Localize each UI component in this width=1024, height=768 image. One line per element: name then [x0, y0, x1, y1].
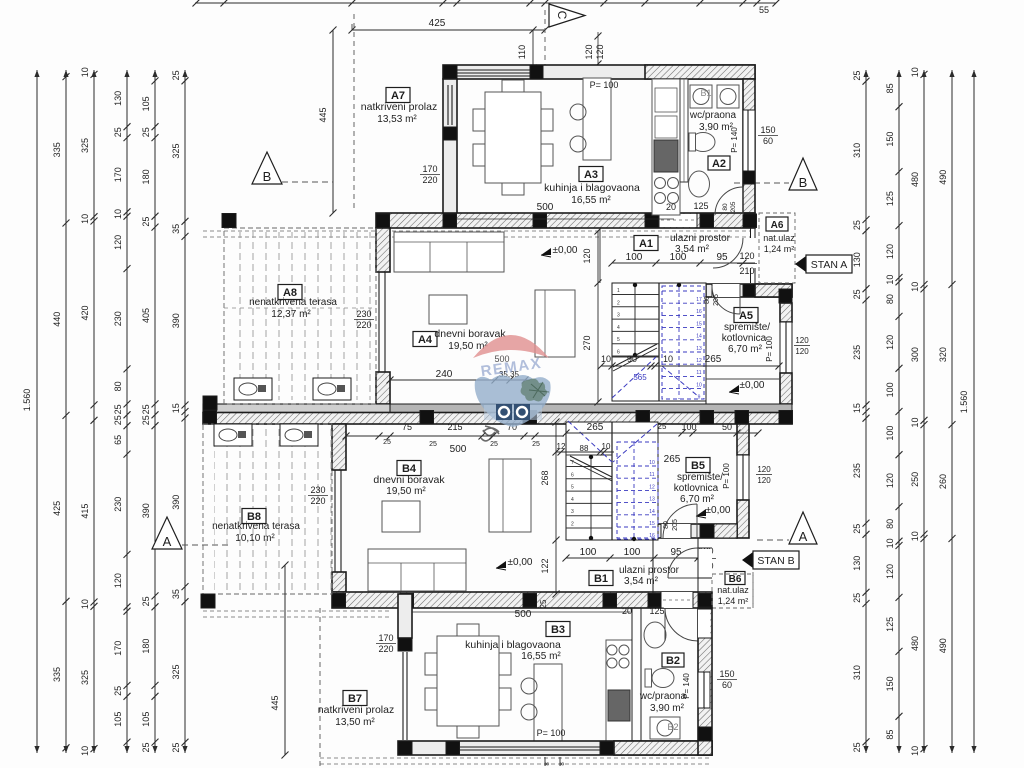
svg-text:120: 120 [595, 44, 605, 59]
svg-text:15: 15 [852, 403, 862, 413]
svg-text:125: 125 [885, 617, 895, 632]
svg-text:C: C [555, 11, 569, 20]
svg-text:480: 480 [910, 636, 920, 651]
svg-text:A1: A1 [639, 238, 653, 250]
svg-text:325: 325 [80, 138, 90, 153]
svg-text:120: 120 [113, 573, 123, 588]
svg-text:25: 25 [141, 127, 151, 137]
svg-text:120: 120 [739, 251, 754, 261]
svg-text:10: 10 [601, 354, 611, 364]
svg-text:6: 6 [571, 472, 574, 478]
svg-text:390: 390 [171, 313, 181, 328]
svg-text:260: 260 [938, 474, 948, 489]
svg-text:320: 320 [938, 347, 948, 362]
svg-text:25: 25 [852, 71, 862, 81]
svg-text:220: 220 [378, 644, 393, 654]
svg-text:spremište/: spremište/ [677, 472, 723, 483]
svg-text:25: 25 [383, 439, 391, 446]
svg-text:nenatkrivena terasa: nenatkrivena terasa [249, 297, 337, 308]
svg-text:11: 11 [696, 370, 701, 376]
svg-text:2: 2 [571, 522, 574, 528]
svg-text:B: B [799, 175, 808, 190]
svg-text:nenatkrivena terasa: nenatkrivena terasa [212, 521, 300, 532]
svg-text:120: 120 [795, 336, 809, 345]
svg-text:spremište/: spremište/ [724, 322, 770, 333]
svg-text:1: 1 [617, 288, 620, 294]
svg-text:425: 425 [52, 501, 62, 516]
svg-text:16: 16 [696, 309, 702, 315]
svg-text:natkriveni prolaz: natkriveni prolaz [318, 704, 394, 716]
svg-text:100: 100 [885, 382, 895, 397]
svg-text:120: 120 [885, 564, 895, 579]
svg-text:268: 268 [540, 470, 550, 485]
svg-text:85: 85 [885, 730, 895, 740]
svg-text:B: B [263, 169, 272, 184]
svg-text:16: 16 [649, 533, 655, 539]
svg-text:10: 10 [910, 531, 920, 541]
svg-text:25: 25 [658, 422, 667, 431]
svg-text:1,24 m²: 1,24 m² [718, 596, 749, 606]
svg-text:4: 4 [617, 325, 620, 331]
svg-text:10,10 m²: 10,10 m² [235, 533, 275, 544]
svg-text:A: A [799, 529, 808, 544]
svg-text:80: 80 [663, 521, 670, 529]
svg-text:205: 205 [672, 519, 679, 531]
svg-text:25: 25 [141, 217, 151, 227]
svg-text:25: 25 [852, 524, 862, 534]
svg-text:130: 130 [113, 91, 123, 106]
svg-text:95: 95 [670, 547, 682, 558]
svg-text:A6: A6 [771, 220, 784, 231]
svg-text:A4: A4 [418, 334, 433, 346]
svg-text:100: 100 [681, 422, 696, 432]
svg-text:390: 390 [171, 495, 181, 510]
svg-text:170: 170 [113, 641, 123, 656]
svg-text:235: 235 [852, 345, 862, 360]
svg-text:kotlovnica: kotlovnica [722, 333, 767, 344]
svg-text:12,37 m²: 12,37 m² [271, 309, 311, 320]
svg-text:1.560: 1.560 [22, 389, 32, 412]
svg-text:85: 85 [885, 83, 895, 93]
svg-text:dnevni boravak: dnevni boravak [373, 474, 445, 486]
svg-text:A5: A5 [739, 310, 753, 322]
svg-text:420: 420 [80, 305, 90, 320]
svg-text:10: 10 [80, 599, 90, 609]
svg-text:105: 105 [141, 712, 151, 727]
svg-text:105: 105 [113, 712, 123, 727]
svg-text:10: 10 [910, 417, 920, 427]
svg-text:150: 150 [885, 132, 895, 147]
svg-text:10: 10 [602, 442, 611, 451]
svg-text:12: 12 [696, 358, 702, 364]
svg-text:5: 5 [571, 485, 574, 491]
svg-text:125: 125 [693, 201, 708, 211]
svg-text:dnevni boravak: dnevni boravak [434, 328, 506, 340]
svg-text:B6: B6 [729, 574, 742, 585]
svg-text:13,53 m²: 13,53 m² [377, 114, 417, 125]
svg-text:3,90 m²: 3,90 m² [650, 703, 685, 714]
svg-text:25: 25 [532, 441, 540, 448]
svg-text:STAN B: STAN B [757, 555, 794, 567]
svg-text:±0,00: ±0,00 [508, 557, 533, 568]
svg-text:220: 220 [310, 496, 325, 506]
svg-text:100: 100 [626, 252, 643, 263]
svg-text:13,50 m²: 13,50 m² [335, 717, 375, 728]
svg-text:14: 14 [649, 509, 655, 515]
svg-text:25: 25 [113, 686, 123, 696]
svg-text:50: 50 [722, 422, 732, 432]
svg-text:80: 80 [113, 381, 123, 391]
svg-text:490: 490 [938, 638, 948, 653]
svg-text:150: 150 [885, 676, 895, 691]
svg-text:325: 325 [171, 664, 181, 679]
svg-text:80: 80 [885, 294, 895, 304]
svg-text:120: 120 [582, 248, 592, 263]
svg-text:25: 25 [852, 742, 862, 752]
svg-text:10: 10 [80, 746, 90, 756]
svg-text:122: 122 [540, 558, 550, 573]
svg-text:P= 140: P= 140 [682, 673, 691, 699]
svg-text:90: 90 [627, 354, 637, 364]
svg-text:±0,00: ±0,00 [706, 505, 731, 516]
svg-text:170: 170 [113, 167, 123, 182]
svg-text:kotlovnica: kotlovnica [674, 483, 719, 494]
svg-text:80: 80 [885, 519, 895, 529]
svg-text:150: 150 [760, 125, 775, 135]
svg-text:415: 415 [80, 504, 90, 519]
svg-text:15: 15 [171, 403, 181, 413]
svg-text:130: 130 [852, 252, 862, 267]
svg-text:25: 25 [141, 415, 151, 425]
svg-text:13: 13 [696, 346, 702, 352]
svg-text:220: 220 [356, 320, 371, 330]
svg-text:230: 230 [310, 485, 325, 495]
svg-text:205: 205 [713, 294, 720, 306]
svg-text:120: 120 [757, 465, 771, 474]
svg-text:80: 80 [722, 203, 729, 211]
svg-text:P= 100: P= 100 [590, 80, 619, 90]
svg-text:250: 250 [910, 472, 920, 487]
svg-text:215: 215 [447, 422, 462, 432]
svg-text:220: 220 [422, 175, 437, 185]
svg-text:wc/praona: wc/praona [689, 110, 737, 121]
svg-text:490: 490 [938, 170, 948, 185]
svg-text:natkriveni prolaz: natkriveni prolaz [361, 101, 437, 113]
svg-text:6,70 m²: 6,70 m² [728, 344, 763, 355]
svg-text:35: 35 [171, 224, 181, 234]
svg-text:180: 180 [141, 639, 151, 654]
svg-text:75: 75 [402, 422, 412, 432]
svg-text:95: 95 [716, 252, 728, 263]
svg-text:3: 3 [617, 313, 620, 319]
svg-text:25: 25 [113, 127, 123, 137]
svg-text:445: 445 [270, 695, 280, 710]
svg-text:335: 335 [52, 142, 62, 157]
svg-text:6,70 m²: 6,70 m² [680, 494, 715, 505]
svg-text:25: 25 [113, 404, 123, 414]
svg-text:500: 500 [515, 609, 532, 620]
svg-text:10: 10 [663, 354, 673, 364]
svg-text:25: 25 [141, 743, 151, 753]
svg-text:25: 25 [539, 599, 548, 608]
svg-text:110: 110 [517, 45, 527, 59]
svg-text:65: 65 [113, 435, 123, 445]
svg-text:100: 100 [580, 547, 597, 558]
svg-text:300: 300 [910, 347, 920, 362]
svg-text:500: 500 [450, 444, 467, 455]
svg-text:25: 25 [171, 743, 181, 753]
svg-text:500: 500 [537, 202, 554, 213]
svg-text:235: 235 [852, 463, 862, 478]
svg-text:3: 3 [571, 509, 574, 515]
svg-text:440: 440 [52, 312, 62, 327]
svg-text:1.560: 1.560 [959, 391, 969, 414]
svg-text:P= 100: P= 100 [765, 336, 774, 362]
svg-text:wc/praona: wc/praona [639, 691, 687, 702]
svg-text:16,55 m²: 16,55 m² [521, 651, 561, 662]
svg-text:P= 100: P= 100 [722, 463, 731, 489]
svg-text:14: 14 [696, 334, 702, 340]
svg-text:230: 230 [356, 309, 371, 319]
svg-text:425: 425 [429, 18, 446, 29]
svg-text:17: 17 [696, 297, 702, 303]
svg-text:445: 445 [318, 107, 328, 122]
svg-text:10: 10 [696, 382, 702, 388]
svg-text:55: 55 [759, 5, 769, 15]
svg-text:310: 310 [852, 665, 862, 680]
svg-text:ulazni prostor: ulazni prostor [670, 233, 731, 244]
svg-text:405: 405 [141, 308, 151, 323]
svg-text:230: 230 [113, 311, 123, 326]
svg-text:12: 12 [649, 484, 655, 490]
svg-text:6: 6 [617, 350, 620, 356]
svg-text:B5: B5 [691, 460, 705, 472]
svg-text:±0,00: ±0,00 [553, 245, 578, 256]
svg-text:3,54 m²: 3,54 m² [675, 244, 710, 255]
svg-text:3,90 m²: 3,90 m² [699, 122, 734, 133]
svg-text:B2: B2 [666, 655, 680, 667]
svg-text:5: 5 [617, 337, 620, 343]
svg-text:100: 100 [885, 426, 895, 441]
svg-text:25: 25 [852, 289, 862, 299]
svg-text:20: 20 [622, 606, 632, 616]
svg-text:P= 140: P= 140 [730, 127, 739, 153]
svg-text:60: 60 [763, 136, 773, 146]
svg-text:120: 120 [885, 335, 895, 350]
svg-text:15: 15 [649, 521, 655, 527]
svg-text:kuhinja i blagovaona: kuhinja i blagovaona [465, 639, 561, 651]
svg-text:120: 120 [795, 347, 809, 356]
svg-text:A3: A3 [584, 169, 598, 181]
svg-text:120: 120 [113, 235, 123, 250]
svg-text:3,54 m²: 3,54 m² [624, 576, 659, 587]
svg-text:325: 325 [80, 670, 90, 685]
svg-text:nat.ulaz: nat.ulaz [763, 233, 795, 243]
svg-text:105: 105 [141, 96, 151, 111]
svg-text:9: 9 [698, 395, 701, 401]
svg-text:kuhinja i blagovaona: kuhinja i blagovaona [544, 182, 640, 194]
svg-text:265: 265 [664, 454, 681, 465]
svg-text:130: 130 [852, 556, 862, 571]
svg-text:25: 25 [141, 404, 151, 414]
svg-text:25: 25 [113, 415, 123, 425]
svg-text:11: 11 [649, 472, 654, 478]
svg-text:25: 25 [852, 593, 862, 603]
svg-text:60: 60 [722, 680, 732, 690]
svg-text:120: 120 [885, 473, 895, 488]
svg-text:A: A [163, 534, 172, 549]
svg-text:16,55 m²: 16,55 m² [571, 195, 611, 206]
svg-text:B2: B2 [667, 722, 678, 732]
svg-text:170: 170 [378, 633, 393, 643]
svg-text:25: 25 [429, 441, 437, 448]
svg-text:35: 35 [171, 589, 181, 599]
svg-text:120: 120 [885, 244, 895, 259]
svg-text:STAN A: STAN A [811, 259, 848, 271]
svg-text:210: 210 [739, 266, 754, 276]
svg-text:25: 25 [171, 70, 181, 80]
svg-text:205: 205 [730, 201, 737, 212]
svg-text:10: 10 [80, 214, 90, 224]
svg-text:265: 265 [705, 354, 722, 365]
svg-text:4: 4 [571, 497, 574, 503]
svg-text:100: 100 [624, 547, 641, 558]
svg-text:120: 120 [757, 476, 771, 485]
svg-text:13: 13 [649, 497, 655, 503]
svg-text:B1: B1 [700, 88, 711, 98]
svg-text:10: 10 [910, 67, 920, 77]
svg-text:P= 100: P= 100 [537, 728, 566, 738]
svg-text:565: 565 [633, 373, 647, 382]
svg-text:10: 10 [885, 538, 895, 548]
svg-text:A2: A2 [712, 158, 726, 170]
svg-text:480: 480 [910, 172, 920, 187]
svg-text:310: 310 [852, 143, 862, 158]
svg-text:±0,00: ±0,00 [740, 380, 765, 391]
svg-text:240: 240 [436, 369, 453, 380]
svg-text:335: 335 [52, 667, 62, 682]
svg-text:10: 10 [113, 209, 123, 219]
svg-text:nat.ulaz: nat.ulaz [717, 585, 749, 595]
svg-text:25: 25 [852, 220, 862, 230]
svg-text:10: 10 [649, 460, 655, 466]
svg-text:390: 390 [141, 503, 151, 518]
svg-text:10: 10 [910, 746, 920, 756]
svg-text:10: 10 [885, 275, 895, 285]
svg-text:15: 15 [696, 321, 702, 327]
svg-text:270: 270 [582, 335, 592, 350]
svg-text:20: 20 [666, 202, 676, 212]
svg-text:180: 180 [141, 169, 151, 184]
svg-text:B1: B1 [594, 573, 608, 585]
svg-text:2: 2 [617, 300, 620, 306]
svg-text:25: 25 [490, 441, 498, 448]
svg-text:10: 10 [910, 282, 920, 292]
svg-text:B3: B3 [551, 624, 565, 636]
svg-text:12: 12 [557, 442, 566, 451]
svg-text:19,50 m²: 19,50 m² [386, 486, 426, 497]
svg-text:230: 230 [113, 497, 123, 512]
svg-text:170: 170 [422, 164, 437, 174]
svg-text:10: 10 [80, 67, 90, 77]
svg-text:125: 125 [885, 191, 895, 206]
svg-text:265: 265 [587, 422, 604, 433]
svg-text:80: 80 [704, 296, 711, 304]
svg-text:25: 25 [141, 596, 151, 606]
svg-text:325: 325 [171, 144, 181, 159]
svg-text:125: 125 [649, 606, 664, 616]
svg-text:120: 120 [584, 44, 594, 59]
svg-text:1,24 m²: 1,24 m² [764, 244, 795, 254]
svg-text:150: 150 [719, 669, 734, 679]
svg-text:88: 88 [580, 444, 589, 453]
